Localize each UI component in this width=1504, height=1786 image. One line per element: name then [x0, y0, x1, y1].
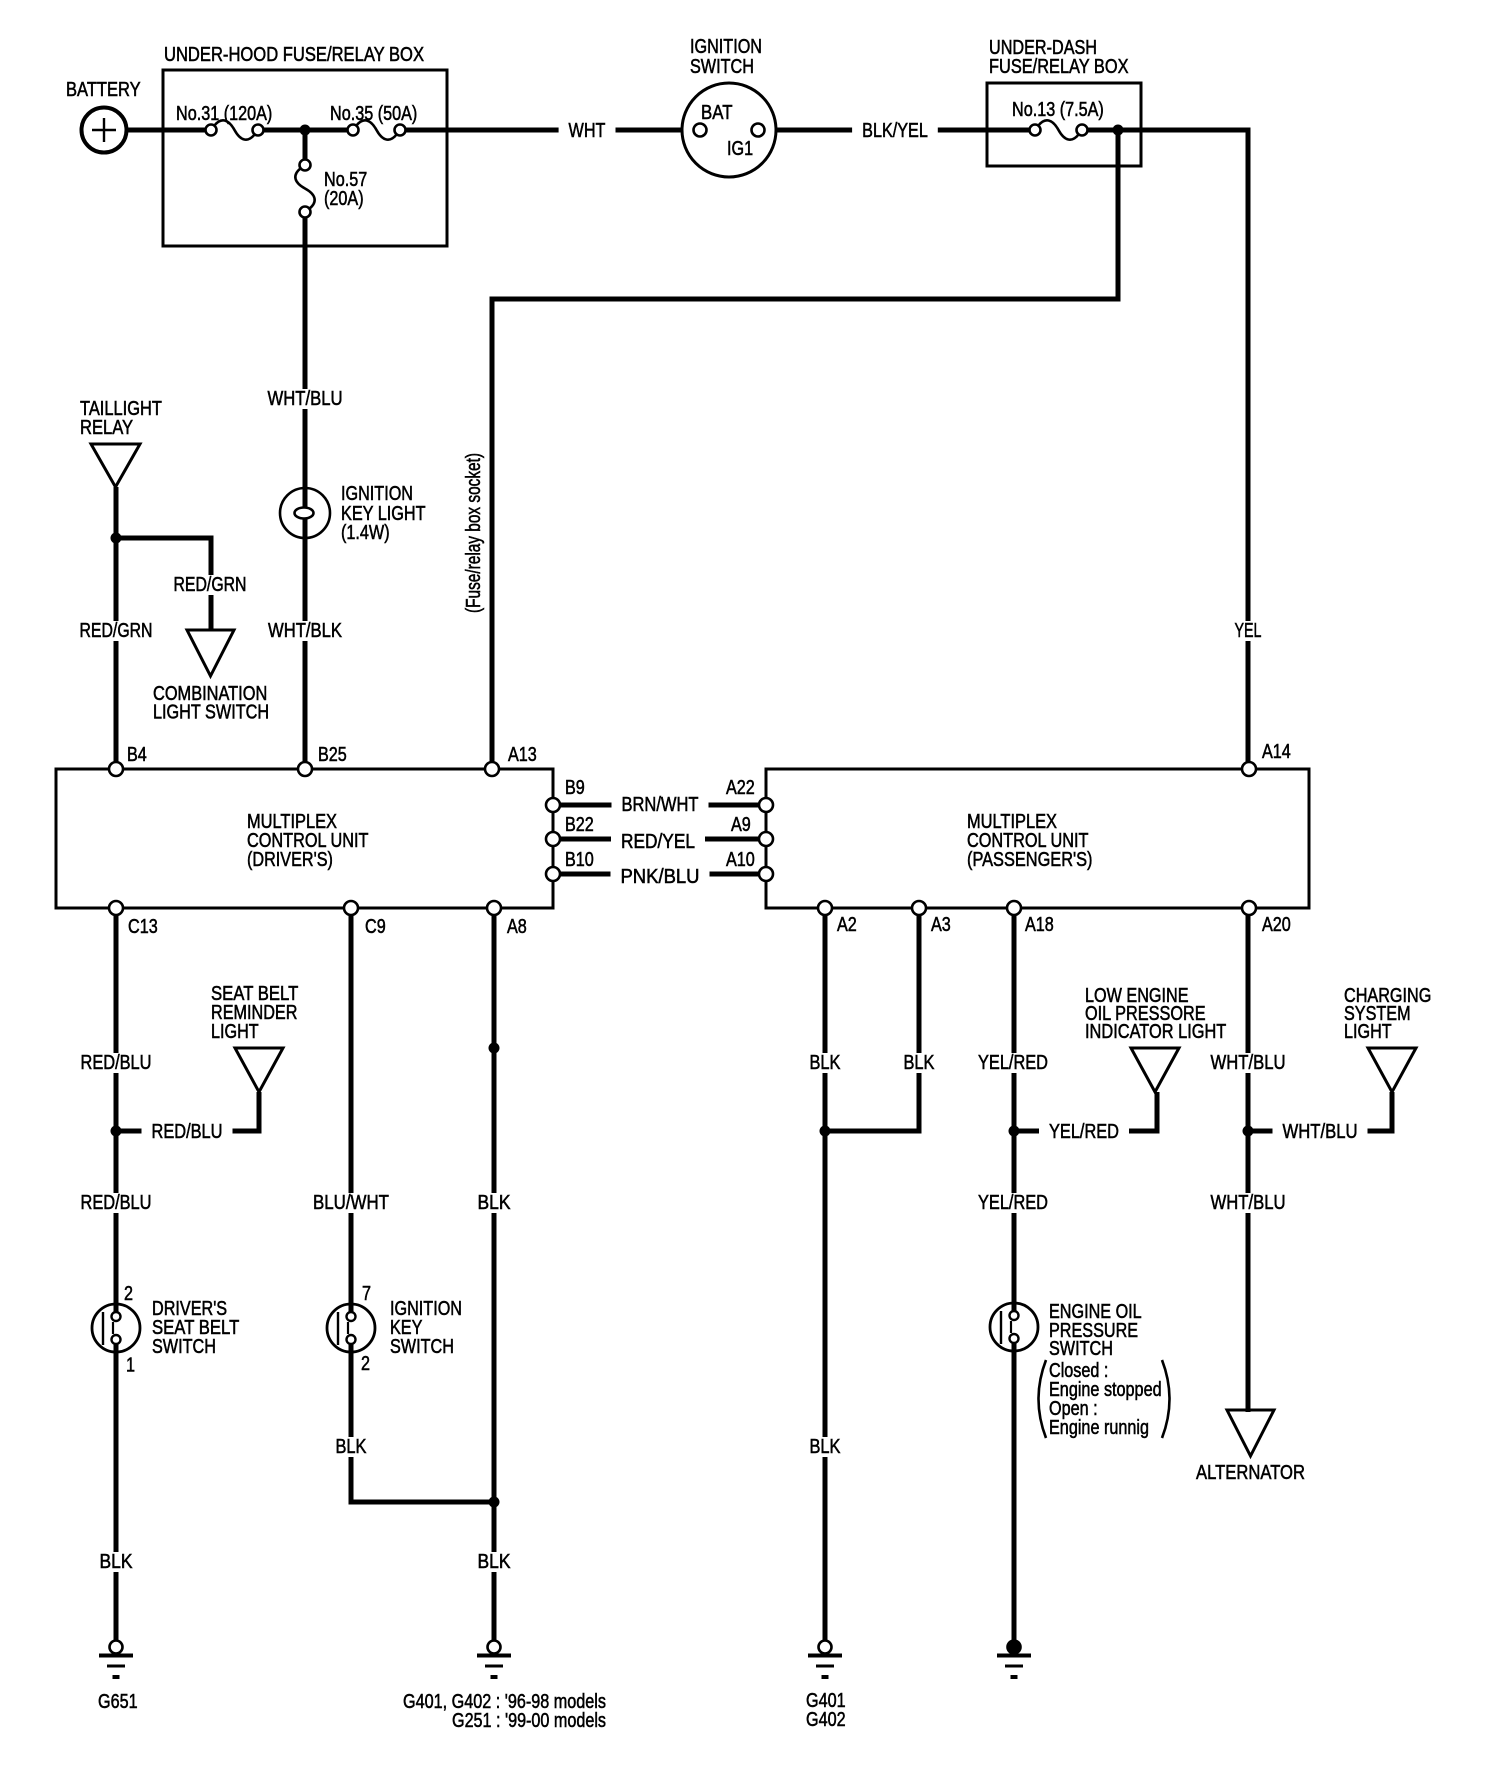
- svg-text:YEL: YEL: [1235, 620, 1262, 642]
- svg-text:BLK: BLK: [810, 1052, 842, 1074]
- svg-text:BLK: BLK: [478, 1192, 512, 1214]
- svg-text:SWITCH: SWITCH: [1049, 1338, 1113, 1360]
- svg-text:G251 : '99-00 models: G251 : '99-00 models: [452, 1710, 606, 1732]
- svg-text:RED/GRN: RED/GRN: [174, 574, 247, 596]
- svg-text:A14: A14: [1262, 741, 1291, 763]
- svg-text:RED/YEL: RED/YEL: [621, 831, 695, 853]
- svg-text:B4: B4: [127, 744, 147, 766]
- svg-text:IGNITION: IGNITION: [690, 36, 762, 58]
- svg-text:WHT/BLU: WHT/BLU: [1283, 1121, 1358, 1143]
- svg-text:BRN/WHT: BRN/WHT: [622, 794, 699, 816]
- svg-text:BLK: BLK: [810, 1436, 842, 1458]
- svg-text:A9: A9: [731, 814, 751, 836]
- svg-text:No.13 (7.5A): No.13 (7.5A): [1012, 99, 1104, 121]
- svg-text:YEL/RED: YEL/RED: [978, 1052, 1048, 1074]
- svg-text:B9: B9: [565, 777, 585, 799]
- svg-text:SWITCH: SWITCH: [152, 1336, 216, 1358]
- svg-text:UNDER-HOOD FUSE/RELAY BOX: UNDER-HOOD FUSE/RELAY BOX: [164, 44, 424, 66]
- svg-text:RELAY: RELAY: [80, 417, 133, 439]
- svg-text:BATTERY: BATTERY: [66, 79, 141, 101]
- svg-text:B10: B10: [565, 849, 594, 871]
- svg-text:FUSE/RELAY BOX: FUSE/RELAY BOX: [989, 56, 1129, 78]
- svg-text:WHT/BLK: WHT/BLK: [268, 620, 343, 642]
- svg-text:BLK: BLK: [100, 1551, 134, 1573]
- svg-text:A13: A13: [508, 744, 537, 766]
- svg-text:BLK: BLK: [478, 1551, 512, 1573]
- svg-text:BLK/YEL: BLK/YEL: [862, 120, 928, 142]
- svg-text:2: 2: [124, 1283, 133, 1305]
- svg-text:(Fuse/relay box socket): (Fuse/relay box socket): [463, 453, 485, 613]
- svg-text:A2: A2: [837, 914, 857, 936]
- svg-text:(20A): (20A): [324, 188, 364, 210]
- svg-text:A18: A18: [1025, 914, 1054, 936]
- svg-text:WHT: WHT: [569, 120, 606, 142]
- svg-text:A3: A3: [931, 914, 951, 936]
- svg-text:BAT: BAT: [701, 102, 733, 124]
- svg-text:C9: C9: [365, 916, 386, 938]
- svg-text:SWITCH: SWITCH: [390, 1336, 454, 1358]
- svg-text:7: 7: [362, 1283, 371, 1305]
- svg-text:C13: C13: [128, 916, 158, 938]
- svg-text:INDICATOR LIGHT: INDICATOR LIGHT: [1085, 1021, 1226, 1043]
- svg-text:PNK/BLU: PNK/BLU: [621, 866, 700, 888]
- svg-text:RED/BLU: RED/BLU: [81, 1192, 152, 1214]
- svg-text:1: 1: [126, 1355, 135, 1377]
- svg-text:B22: B22: [565, 814, 594, 836]
- svg-text:WHT/BLU: WHT/BLU: [1211, 1052, 1286, 1074]
- svg-text:YEL/RED: YEL/RED: [1049, 1121, 1119, 1143]
- svg-text:ALTERNATOR: ALTERNATOR: [1196, 1462, 1305, 1484]
- svg-text:RED/BLU: RED/BLU: [152, 1121, 223, 1143]
- svg-text:A10: A10: [726, 849, 755, 871]
- svg-text:WHT/BLU: WHT/BLU: [1211, 1192, 1286, 1214]
- svg-text:RED/BLU: RED/BLU: [81, 1052, 152, 1074]
- svg-text:LIGHT: LIGHT: [1344, 1021, 1392, 1043]
- svg-text:BLK: BLK: [904, 1052, 936, 1074]
- svg-text:No.35 (50A): No.35 (50A): [330, 103, 417, 125]
- svg-text:BLU/WHT: BLU/WHT: [313, 1192, 389, 1214]
- svg-text:(PASSENGER'S): (PASSENGER'S): [967, 849, 1093, 871]
- svg-text:BLK: BLK: [336, 1436, 368, 1458]
- svg-text:B25: B25: [318, 744, 347, 766]
- svg-text:A8: A8: [507, 916, 527, 938]
- svg-text:(DRIVER'S): (DRIVER'S): [247, 849, 333, 871]
- svg-text:A22: A22: [726, 777, 755, 799]
- svg-text:YEL/RED: YEL/RED: [978, 1192, 1048, 1214]
- svg-text:Engine runnig: Engine runnig: [1049, 1417, 1149, 1439]
- svg-text:2: 2: [361, 1353, 370, 1375]
- svg-text:WHT/BLU: WHT/BLU: [268, 388, 343, 410]
- svg-text:(1.4W): (1.4W): [341, 522, 390, 544]
- svg-text:A20: A20: [1262, 914, 1291, 936]
- svg-text:G651: G651: [98, 1691, 138, 1713]
- svg-text:SWITCH: SWITCH: [690, 56, 754, 78]
- svg-text:IG1: IG1: [727, 138, 753, 160]
- svg-text:No.31 (120A): No.31 (120A): [176, 103, 272, 125]
- svg-text:RED/GRN: RED/GRN: [80, 620, 153, 642]
- svg-text:LIGHT: LIGHT: [211, 1021, 259, 1043]
- svg-text:G402: G402: [806, 1709, 846, 1731]
- svg-text:IGNITION: IGNITION: [341, 483, 413, 505]
- svg-text:LIGHT SWITCH: LIGHT SWITCH: [153, 702, 269, 724]
